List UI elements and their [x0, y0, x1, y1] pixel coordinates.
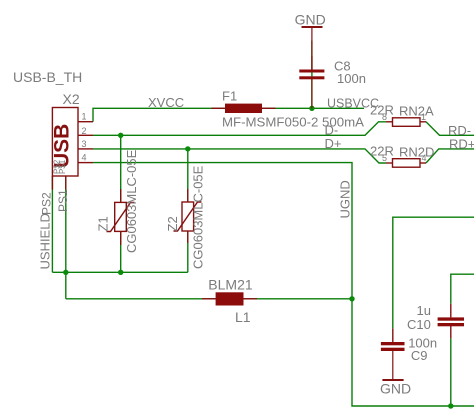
- svg-text:RD+: RD+: [449, 137, 474, 152]
- svg-text:1: 1: [82, 112, 87, 122]
- svg-text:F1: F1: [222, 89, 237, 104]
- svg-text:2: 2: [82, 126, 87, 136]
- svg-text:USB-B_TH: USB-B_TH: [13, 69, 82, 85]
- svg-text:XVCC: XVCC: [148, 95, 184, 110]
- svg-text:3: 3: [82, 139, 87, 149]
- svg-text:RN2D: RN2D: [399, 145, 434, 160]
- svg-text:D+: D+: [325, 136, 342, 151]
- svg-text:X2: X2: [63, 91, 80, 107]
- svg-text:4: 4: [82, 152, 87, 162]
- svg-text:100n: 100n: [337, 71, 366, 86]
- svg-text:C10: C10: [407, 317, 431, 332]
- svg-text:1: 1: [421, 112, 426, 122]
- svg-text:PS2: PS2: [40, 192, 54, 215]
- svg-text:UGND: UGND: [338, 180, 353, 218]
- svg-text:8: 8: [382, 112, 387, 122]
- svg-text:RN2A: RN2A: [399, 103, 434, 118]
- svg-text:P$1: P$1: [58, 159, 67, 174]
- svg-text:BLM21: BLM21: [208, 277, 253, 293]
- svg-text:CG0603MLC-05E: CG0603MLC-05E: [191, 165, 206, 269]
- svg-text:C9: C9: [411, 348, 428, 363]
- svg-text:L1: L1: [235, 309, 251, 325]
- svg-text:4: 4: [422, 153, 427, 163]
- svg-text:PS1: PS1: [56, 189, 70, 212]
- svg-text:GND: GND: [295, 12, 326, 28]
- svg-text:GND: GND: [380, 381, 411, 397]
- svg-text:CG0603MLC-05E: CG0603MLC-05E: [124, 149, 139, 253]
- svg-text:Z2: Z2: [165, 216, 180, 231]
- svg-text:1u: 1u: [417, 303, 431, 318]
- svg-text:MF-MSMF050-2 500mA: MF-MSMF050-2 500mA: [222, 115, 364, 130]
- svg-text:5: 5: [382, 153, 387, 163]
- svg-text:USHIELD: USHIELD: [38, 213, 53, 269]
- svg-text:Z1: Z1: [96, 216, 111, 231]
